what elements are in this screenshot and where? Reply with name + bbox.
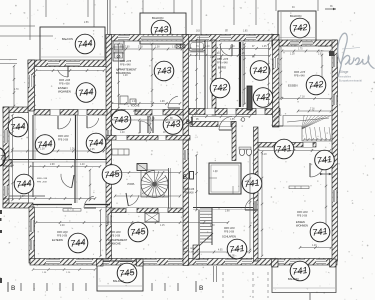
svg-text:FFB +948: FFB +948 — [120, 64, 131, 67]
label: ESSEN — [288, 84, 297, 88]
balcony top-right outline — [278, 11, 316, 42]
label: FFB +948 — [294, 75, 305, 78]
label: FFB 1438 — [224, 232, 235, 234]
label: FFB 1438 — [297, 216, 308, 218]
door KIND 1 — [58, 116, 71, 129]
door stair — [272, 115, 283, 126]
door opening — [107, 130, 112, 140]
dim chain v corridor — [149, 115, 151, 134]
dashed line — [222, 272, 224, 298]
door opening — [125, 110, 135, 116]
apartment wall x107 — [106, 35, 112, 259]
room bubble 744 — [76, 83, 96, 103]
svg-text:1.38: 1.38 — [155, 47, 160, 49]
door essen744 — [58, 66, 68, 77]
dim chain mid right — [191, 115, 251, 118]
dimension line — [87, 0, 89, 17]
kitchen detail — [113, 47, 124, 58]
dimension line — [200, 0, 202, 36]
dim arrow — [320, 173, 332, 175]
wall y144 — [255, 143, 316, 148]
door eltern — [84, 196, 96, 208]
window — [30, 220, 35, 232]
svg-text:MFB 1438: MFB 1438 — [58, 136, 69, 138]
shower — [145, 213, 159, 222]
dim chain v bad — [243, 43, 245, 105]
watermark logo flourish — [338, 33, 375, 77]
door opening — [205, 109, 215, 115]
balcony rail — [141, 39, 185, 41]
dim text: 1.05 — [262, 46, 267, 48]
svg-text:1.38: 1.38 — [40, 149, 45, 151]
label: KIND — [37, 136, 43, 140]
svg-text:MFB 1438: MFB 1438 — [57, 232, 68, 234]
dimension line — [191, 0, 193, 25]
dimension line — [173, 0, 175, 13]
dimension line — [275, 0, 277, 11]
label: APPARTEMENT — [116, 68, 137, 72]
svg-text:ESSEN: ESSEN — [296, 220, 305, 224]
door opening — [50, 110, 60, 116]
svg-text:MFB + 1438: MFB + 1438 — [183, 248, 195, 250]
partition — [32, 162, 34, 197]
dim text: 7.16 — [310, 109, 315, 111]
dim chain v boarding — [117, 43, 119, 109]
outer wall left wing top — [28, 60, 107, 67]
site boundary line — [0, 63, 17, 65]
wall x214 — [212, 40, 216, 115]
dim text: 2.60 — [210, 57, 215, 59]
svg-text:FFB 1438: FFB 1438 — [184, 193, 195, 195]
dim chain spiral room — [114, 195, 181, 198]
window — [30, 240, 35, 250]
room bubble 741 — [315, 150, 335, 170]
svg-text:Bad + Strateck: Bad + Strateck — [112, 208, 127, 211]
window — [4, 186, 9, 196]
label: SCHLAFEN — [222, 235, 236, 239]
dim text: 1.55 — [230, 119, 235, 121]
door bad — [220, 44, 232, 56]
window — [66, 61, 80, 67]
dim chain top 3 — [189, 54, 271, 57]
partition line — [193, 209, 253, 211]
door opening — [158, 208, 168, 213]
dim text: 2.02 — [318, 54, 323, 56]
room bubble 741 corridor — [274, 139, 294, 159]
jamb — [152, 116, 154, 133]
dim text: 1.60 — [230, 46, 235, 48]
room bubble 743 — [151, 20, 171, 40]
stair tread numbers — [303, 138, 331, 141]
balcony top-left outline — [40, 27, 105, 63]
dim chain v boarding2 — [151, 43, 153, 107]
svg-text:FFB +908: FFB +908 — [37, 182, 47, 184]
dim text: 1.85 — [243, 31, 248, 33]
dim chain v2 — [219, 43, 221, 87]
svg-text:1.15: 1.15 — [160, 225, 165, 227]
label: MFB 1438 — [110, 232, 121, 234]
balcony door — [97, 259, 109, 265]
window — [29, 75, 35, 87]
door wc — [262, 96, 273, 107]
window — [290, 41, 299, 46]
partition line — [9, 161, 107, 163]
dim text: 94 — [292, 7, 295, 9]
door kind unten — [61, 174, 74, 188]
window — [4, 130, 9, 143]
window — [333, 190, 338, 202]
label: FFB 1438 — [58, 140, 69, 142]
label: FFB + 1438 — [183, 252, 195, 254]
dimension line — [255, 0, 257, 25]
dim chain v essen744 — [33, 65, 35, 107]
svg-text:1.98: 1.98 — [160, 101, 165, 103]
label: MFB +938 — [37, 178, 48, 180]
door opening — [116, 136, 127, 141]
partition line — [77, 115, 79, 160]
dim text: 1.98 — [160, 101, 165, 103]
dim text: 163 — [196, 31, 201, 33]
spiral staircase — [141, 168, 171, 208]
window — [143, 259, 157, 265]
window — [197, 35, 209, 41]
dim chain v essen741 left — [261, 151, 263, 257]
svg-text:2.40: 2.40 — [132, 101, 137, 103]
svg-text:Europakommissariat: Europakommissariat — [339, 80, 362, 83]
dim text: 95 — [196, 119, 199, 121]
dim text: 2.05 — [90, 149, 95, 151]
label: &#8776; 4.05 &#8776; — [228, 255, 237, 258]
dim text: 1.38 — [40, 149, 45, 151]
door opening — [126, 208, 137, 213]
dim text: 1.15 — [150, 118, 155, 120]
svg-text:1.38: 1.38 — [215, 53, 220, 55]
label: MFB + 1438 — [183, 248, 195, 250]
dim chain schlafen — [195, 251, 251, 254]
partition — [33, 204, 72, 206]
outer wall top right — [272, 40, 337, 46]
room bubble 742 — [306, 75, 326, 95]
svg-text:1.85: 1.85 — [243, 31, 248, 33]
terrace wall — [3, 107, 28, 113]
svg-text:BALKON: BALKON — [290, 14, 301, 18]
svg-text:1.29: 1.29 — [312, 245, 317, 247]
room bubble 743 — [111, 110, 131, 130]
dim text: 1.26 — [70, 149, 75, 151]
duct wall — [239, 42, 241, 107]
partition — [85, 204, 110, 206]
svg-text:1.18: 1.18 — [290, 54, 295, 56]
dim text: 2.98 — [50, 164, 55, 166]
dim text: 1.40 — [80, 164, 85, 166]
window — [46, 259, 60, 265]
outer wall left upper — [28, 60, 35, 111]
room bubble 745 — [117, 263, 137, 283]
svg-text:2.02: 2.02 — [318, 54, 323, 56]
dim chain top 2 — [189, 47, 271, 50]
outer wall right — [332, 40, 338, 261]
partition line — [76, 160, 78, 203]
window — [118, 35, 129, 41]
door boarding — [168, 96, 180, 108]
svg-text:MFB 1438: MFB 1438 — [110, 232, 121, 234]
lift box — [137, 164, 147, 171]
svg-text:7: 7 — [0, 156, 4, 162]
outer wall lower left — [29, 207, 35, 263]
pier block — [329, 51, 335, 56]
partition line — [34, 115, 36, 160]
svg-text:745: 745 — [130, 226, 148, 238]
svg-text:1.40: 1.40 — [205, 46, 210, 48]
edge smudge — [0, 210, 2, 283]
label: ESSEN — [58, 86, 67, 90]
svg-text:B: B — [183, 175, 187, 181]
dim text: 2.26 — [66, 272, 71, 274]
terrace inner edge — [28, 112, 30, 203]
dim text: 1.75 — [298, 49, 303, 51]
room bubble 744 — [35, 135, 55, 155]
svg-text:BRANCHE: BRANCHE — [108, 242, 121, 246]
balcony rail — [41, 56, 104, 58]
label: BOARDING — [116, 71, 131, 75]
shaft — [247, 86, 252, 110]
wall join — [272, 35, 279, 47]
window — [242, 259, 252, 265]
wall x255 — [254, 127, 259, 261]
door spiral room — [126, 193, 139, 206]
door KIND 2 — [87, 116, 99, 128]
label: BALKON — [288, 277, 299, 281]
svg-text:Immobilien: Immobilien — [339, 75, 352, 78]
dim text: 2.56 — [84, 22, 89, 24]
dim chain v eltern — [89, 169, 91, 201]
door corridor — [140, 121, 152, 133]
bathtub — [189, 41, 205, 51]
dim text: 1.15 — [160, 225, 165, 227]
partition line — [207, 40, 209, 109]
door schlafen corridor — [245, 197, 258, 210]
partition — [75, 115, 77, 160]
dim chain essen744 — [35, 69, 105, 72]
apartment wall x185 — [183, 35, 189, 266]
balcony door — [302, 41, 313, 46]
svg-text:745: 745 — [104, 168, 122, 180]
watermark text: Europakommissariat — [339, 80, 362, 83]
door opening — [158, 136, 166, 141]
wall bottom-left — [3, 203, 33, 208]
svg-text:3.18: 3.18 — [262, 154, 267, 156]
dim text: 74 — [196, 46, 199, 48]
dim text: 4.05 — [218, 250, 223, 252]
wall y210 — [111, 208, 183, 213]
svg-text:1.38: 1.38 — [213, 171, 218, 173]
dim text: 1.30 — [210, 225, 215, 227]
svg-text:745: 745 — [119, 267, 137, 279]
label: FFB 1438 — [184, 193, 195, 195]
site boundary line — [0, 35, 53, 37]
svg-text:MFB +938: MFB +938 — [37, 178, 48, 180]
label: FFB +908 — [59, 83, 70, 86]
room bubble 741 — [227, 239, 247, 259]
partition — [204, 40, 206, 109]
svg-text:FFB 1438: FFB 1438 — [297, 216, 308, 218]
label: MFB +978 — [217, 58, 229, 61]
window — [76, 259, 92, 265]
door opening — [227, 109, 236, 115]
dimension line — [45, 0, 47, 17]
room bubble 744 — [14, 174, 34, 194]
watermark text: Klinge — [339, 70, 349, 74]
dim text: 88 — [170, 118, 173, 120]
terrace partition — [3, 160, 12, 166]
balcony rail — [279, 37, 315, 39]
room bubble 745 — [128, 222, 148, 242]
door essen741 — [310, 163, 324, 177]
door — [254, 201, 258, 211]
room bubble 745 — [102, 165, 122, 185]
dim chain v essen742 — [321, 54, 323, 79]
dim chain below wall — [32, 268, 96, 271]
radiator — [63, 209, 81, 212]
dim chain v eltern right — [99, 209, 101, 257]
partition — [74, 160, 76, 203]
svg-text:2.60: 2.60 — [210, 57, 215, 59]
svg-text:2.05: 2.05 — [90, 149, 95, 151]
wall mid right — [189, 109, 280, 115]
svg-text:1.30: 1.30 — [210, 225, 215, 227]
svg-text:BALKON: BALKON — [113, 279, 124, 283]
door mitte — [219, 117, 233, 131]
dashed line — [267, 272, 269, 298]
label: MFB 1438 — [184, 189, 195, 191]
dimension line — [29, 0, 31, 40]
partition line — [33, 207, 72, 209]
label: FFB +948 — [120, 64, 131, 67]
dim chain v bad2 — [267, 43, 269, 105]
dimension line — [107, 0, 109, 34]
watermark text: Immobilien — [339, 75, 352, 78]
room bubble 742 — [210, 78, 230, 98]
label: BALKON — [113, 279, 124, 283]
dim chain corridor — [111, 119, 181, 122]
label: MFB +938 — [59, 79, 71, 82]
svg-text:1.26: 1.26 — [70, 149, 75, 151]
svg-text:1.40: 1.40 — [80, 164, 85, 166]
balcony door — [141, 36, 185, 41]
svg-text:MFB 1438: MFB 1438 — [184, 189, 195, 191]
balcony bottom-right outline — [272, 265, 336, 293]
svg-text:FFB +948: FFB +948 — [294, 75, 305, 78]
counter line — [189, 51, 205, 53]
dim chain v essen741 — [325, 164, 327, 229]
staircase right (winder) — [283, 116, 332, 142]
room bubble 741 mitte — [242, 174, 262, 194]
balcony bottom-left outline — [97, 261, 143, 291]
label: BRANCHE — [108, 242, 121, 246]
svg-text:1.15: 1.15 — [150, 118, 155, 120]
dimension line — [317, 0, 319, 11]
closet room — [209, 163, 241, 194]
svg-text:ELTERN: ELTERN — [52, 238, 63, 242]
site boundary line — [0, 25, 35, 27]
terrace edge — [9, 195, 45, 197]
label: &#8960; 97 — [319, 50, 324, 53]
room bubble 743 — [163, 115, 183, 135]
shaft boxes — [176, 45, 185, 49]
dim chain top right — [281, 50, 331, 53]
dim text: 1.40 — [140, 194, 145, 196]
label: FFB +908 — [37, 182, 47, 184]
svg-text:BÜRO: BÜRO — [218, 66, 227, 70]
label: MFB 1438 — [57, 232, 68, 234]
dim chain v schlafen left — [195, 154, 197, 211]
dimension line — [142, 0, 144, 13]
room bubble 742 — [250, 61, 270, 81]
bad boxes top — [120, 96, 136, 104]
radiator2 — [289, 186, 309, 189]
dim text: 1.38 — [215, 53, 220, 55]
room bubble 741 — [290, 261, 310, 281]
dim chain spiral top — [111, 171, 181, 174]
dim chain lower mid — [35, 221, 229, 224]
door opening — [107, 215, 112, 225]
svg-text:≈ 4.05 ≈: ≈ 4.05 ≈ — [228, 255, 237, 258]
dim chain essen — [299, 246, 332, 249]
label: ELTERN — [52, 238, 63, 242]
dim chain v1 — [195, 39, 197, 115]
wall mid boarding — [111, 110, 183, 116]
dim text: 97 — [36, 149, 39, 151]
window — [333, 95, 338, 105]
dim text: 1.18 — [290, 54, 295, 56]
dim text: 2.40 — [132, 101, 137, 103]
dim text: 1.70 — [14, 89, 19, 91]
label: MFB +978 — [120, 60, 132, 63]
window — [220, 35, 231, 41]
svg-text:4.05: 4.05 — [218, 250, 223, 252]
label: FFB 1438 — [57, 236, 68, 238]
room bubble 744 — [86, 133, 106, 153]
partition — [193, 207, 253, 209]
wall x275 — [273, 40, 280, 127]
svg-text:7.18: 7.18 — [300, 97, 305, 99]
WC fixtures — [239, 147, 252, 156]
dimension line — [109, 0, 111, 34]
svg-text:1.40: 1.40 — [140, 194, 145, 196]
svg-text:BALKON: BALKON — [62, 37, 73, 41]
dim text: 3.18 — [262, 154, 267, 156]
svg-text:BALKON: BALKON — [288, 277, 299, 281]
svg-text:MFB 1438: MFB 1438 — [297, 212, 308, 214]
window — [246, 35, 256, 41]
door opening — [78, 110, 87, 116]
svg-text:B: B — [199, 285, 203, 292]
svg-text:KOCHN.B: KOCHN.B — [318, 46, 329, 48]
door opening — [152, 110, 163, 116]
room bubble 743 — [154, 61, 174, 81]
dim chain v right — [280, 45, 282, 99]
dashed line — [252, 272, 254, 298]
dimension line — [233, 0, 235, 25]
svg-text:1.97: 1.97 — [20, 196, 25, 198]
svg-text:2.60: 2.60 — [125, 47, 130, 49]
svg-text:FFB +948: FFB +948 — [217, 62, 228, 65]
outer wall top — [108, 35, 278, 42]
dim text: 1.29 — [312, 245, 317, 247]
svg-text:FFB 1438: FFB 1438 — [224, 232, 235, 234]
partition — [9, 159, 107, 161]
outer wall far left — [3, 107, 9, 207]
